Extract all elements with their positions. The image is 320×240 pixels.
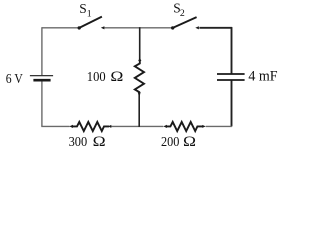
- wire: left vertical upper (corner to battery): [41, 27, 43, 75]
- wire: right vertical upper (corner to capacitor): [231, 27, 233, 74]
- svg-text:6 V: 6 V: [6, 71, 23, 86]
- svg-text:100: 100: [87, 69, 106, 84]
- resistor R2 300 ohm left lead arrowhead: [69, 125, 73, 128]
- battery V1 6V bottom plate (short thick): [33, 79, 50, 82]
- wire: middle vertical lower (100 ohm to bottom node): [138, 94, 140, 127]
- wire: bottom-left horizontal (corner to 300 ohm): [41, 125, 69, 127]
- wire: bottom (middle node to 200 ohm): [140, 125, 164, 127]
- svg-text:200: 200: [161, 134, 179, 149]
- wire: top middle (node to S2): [140, 27, 172, 29]
- capacitor C1 4mF top plate: [217, 73, 245, 75]
- resistor R2 300 ohm right lead arrowhead: [108, 125, 111, 128]
- switch S2 lever (open): [173, 17, 197, 28]
- resistor R1 100 ohm zigzag (vertical): [135, 60, 144, 95]
- wire: bottom-right horizontal (200 ohm to right corner): [206, 125, 232, 127]
- resistor R3 200 ohm left lead arrowhead: [163, 125, 167, 128]
- svg-text:Ω: Ω: [93, 134, 106, 150]
- resistor R1 100 ohm bottom end mark: [138, 92, 141, 95]
- switch S1 lever (open): [79, 17, 102, 28]
- svg-text:Ω: Ω: [110, 69, 123, 85]
- svg-text:4 mF: 4 mF: [248, 69, 277, 85]
- svg-text:1: 1: [87, 8, 92, 19]
- switch S1 left contact dot: [78, 26, 81, 29]
- wire: top-right horizontal (S2 to right corner): [199, 27, 232, 29]
- battery V1 6V top plate (long thin): [30, 75, 53, 77]
- svg-text:Ω: Ω: [183, 134, 196, 150]
- wire: bottom (300 ohm to middle node): [111, 125, 140, 127]
- switch S2 right contact arrowhead: [195, 26, 199, 29]
- wire: top-left horizontal (battery + to S1): [42, 27, 78, 29]
- wire: left vertical lower (battery to bottom corner): [41, 81, 43, 126]
- wire: middle vertical upper (top node to 100 ohm): [139, 27, 141, 59]
- svg-text:300: 300: [69, 134, 88, 149]
- resistor R1 100 ohm top end mark: [138, 58, 141, 61]
- resistor R3 200 ohm right lead arrowhead: [202, 125, 205, 128]
- svg-text:S: S: [79, 1, 86, 16]
- resistor R2 300 ohm zigzag: [72, 122, 109, 131]
- capacitor C1 4mF bottom plate: [217, 79, 245, 81]
- wire: right vertical lower (capacitor to bottom corner): [231, 80, 233, 126]
- svg-text:2: 2: [180, 8, 185, 19]
- switch S1 right contact arrowhead: [101, 26, 105, 29]
- wire: top middle (S1 to node at middle branch): [104, 27, 139, 29]
- resistor R3 200 ohm zigzag: [166, 122, 203, 131]
- switch S2 left contact dot: [171, 26, 174, 29]
